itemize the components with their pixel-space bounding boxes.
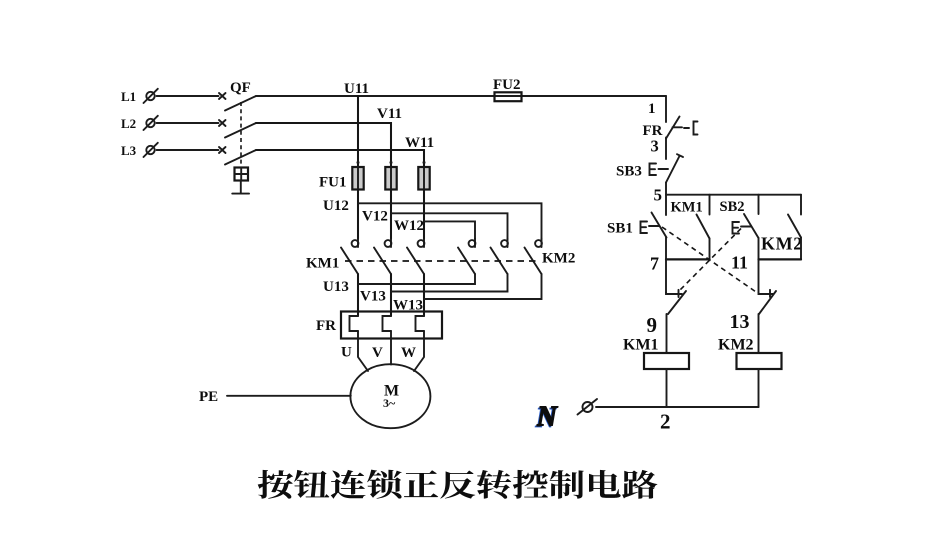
svg-text:1: 1 — [648, 101, 656, 117]
svg-text:KM2: KM2 — [542, 251, 575, 267]
contactor main contact at x=475 — [458, 239, 475, 274]
breaker QF pole 3 — [219, 147, 256, 165]
wire SB1 to node7 — [665, 238, 667, 260]
svg-text:KM2: KM2 — [761, 234, 803, 254]
fuse FU1 element at x=391 — [385, 161, 396, 190]
wire L1 to QF — [157, 95, 219, 97]
fuse FU2 — [495, 92, 522, 101]
node L1 terminal — [144, 89, 158, 103]
linkage dashed SB2 NO to SB2 NC — [679, 229, 741, 292]
thermal relay FR heater element at x=391 — [383, 316, 392, 331]
wire KM2 pole3 to W13 crossover — [424, 274, 542, 299]
svg-text:FU2: FU2 — [493, 77, 521, 93]
coil KM1 — [644, 353, 689, 369]
svg-text:U: U — [341, 345, 352, 361]
node 2 wire N bus — [596, 406, 759, 408]
svg-text:U12: U12 — [323, 198, 349, 214]
pushbutton SB1 NO forward button — [641, 213, 667, 238]
wire SB2 to node11 — [758, 238, 760, 259]
thermal relay FR NC contact — [666, 117, 682, 139]
wire W12 branch to KM2 — [424, 221, 475, 238]
node 7 wire — [666, 258, 710, 260]
fuse FU1 element at x=358 — [352, 161, 363, 190]
svg-text:QF: QF — [230, 80, 251, 96]
wire L3 to QF — [157, 149, 219, 151]
wire U12 drop — [357, 190, 359, 239]
wire U13 drop — [357, 274, 359, 316]
svg-text:9: 9 — [647, 313, 658, 337]
wire node7 drop — [665, 259, 667, 292]
pushbutton SB2 NC interlock contact — [666, 290, 686, 314]
wire L3 bus to W11 — [256, 150, 424, 167]
svg-text:PE: PE — [199, 389, 218, 405]
wire L2 to QF — [157, 122, 219, 124]
svg-text:U13: U13 — [323, 279, 349, 295]
svg-text:V11: V11 — [377, 106, 402, 122]
wire L1 bus U11 to node 1 — [256, 95, 666, 97]
svg-text:KM1: KM1 — [623, 337, 659, 354]
thermal relay FR heater element at x=358 — [350, 316, 359, 331]
thermal relay FR trip symbol — [684, 122, 698, 135]
wire PE to motor — [227, 395, 351, 397]
thermal relay FR box — [341, 312, 442, 339]
wire KM1 coil to node2 — [666, 369, 668, 407]
svg-text:7: 7 — [650, 254, 659, 274]
wire node9 segment — [666, 314, 668, 353]
svg-text:5: 5 — [654, 186, 663, 205]
wire U12 branch to KM2 — [358, 203, 542, 239]
fuse FU1 element at x=424 — [418, 161, 429, 190]
contactor linkage dashed KM1-KM2 — [345, 260, 540, 262]
svg-text:FR: FR — [316, 318, 336, 334]
node 11 wire — [759, 258, 802, 260]
contact KM1 auxiliary NO self-latch — [697, 215, 710, 239]
contactor main contact at x=424 — [407, 239, 424, 274]
wire motor V lead — [390, 331, 392, 365]
breaker QF pole 2 — [219, 120, 256, 138]
wire node5 segment — [665, 183, 667, 216]
pushbutton SB3 NC stop button — [650, 154, 684, 182]
motor M 3-phase — [350, 364, 430, 428]
wire KM2 aux to node11 — [800, 238, 802, 260]
wire KM2 pole2 to V13 crossover — [391, 274, 508, 292]
contact KM2 auxiliary NO self-latch — [788, 215, 801, 238]
svg-text:SB2: SB2 — [720, 199, 745, 215]
wire node5 rail — [666, 194, 801, 196]
svg-text:V: V — [372, 345, 383, 361]
breaker QF pole 1 — [219, 93, 256, 111]
breaker QF mechanism stem and bar — [232, 181, 249, 194]
thermal relay FR heater element at x=424 — [416, 316, 425, 331]
svg-text:L2: L2 — [121, 116, 136, 131]
wire W12 drop — [423, 190, 425, 239]
svg-text:KM2: KM2 — [718, 337, 754, 354]
wire KM1 aux to node7 — [709, 239, 711, 260]
svg-text:SB3: SB3 — [616, 164, 642, 180]
svg-text:N: N — [536, 402, 559, 433]
wire node3 segment — [665, 138, 667, 160]
wire W13 drop — [423, 274, 425, 316]
contactor main contact at x=541.5 — [525, 239, 542, 274]
svg-text:V12: V12 — [362, 209, 388, 225]
svg-text:2: 2 — [660, 410, 671, 434]
wire node11 drop — [758, 259, 760, 292]
pushbutton SB1 NC interlock contact — [759, 290, 777, 314]
coil KM2 — [737, 353, 782, 369]
svg-text:V13: V13 — [360, 289, 386, 305]
svg-text:L1: L1 — [121, 89, 136, 104]
svg-text:3: 3 — [651, 137, 659, 156]
svg-text:13: 13 — [730, 311, 750, 333]
svg-text:KM1: KM1 — [671, 200, 703, 216]
node L2 terminal — [144, 116, 158, 130]
contactor main contact at x=391 — [374, 239, 391, 274]
svg-text:11: 11 — [731, 253, 748, 273]
node N terminal — [578, 399, 598, 415]
wire SB2 branch drop — [758, 195, 760, 214]
svg-text:L3: L3 — [121, 143, 137, 158]
wire motor U lead — [358, 331, 368, 371]
svg-text:3~: 3~ — [383, 396, 396, 410]
breaker QF linkage dashed — [240, 102, 242, 167]
wire U11 drop — [357, 96, 359, 167]
node L3 terminal — [144, 143, 158, 157]
pushbutton SB2 NO reverse button — [733, 214, 759, 238]
wire L2 bus to V11 — [256, 123, 391, 167]
linkage dashed SB1 NO to SB1 NC — [662, 227, 758, 293]
contactor main contact at x=507.5 — [491, 239, 508, 274]
breaker QF operating mechanism box — [235, 168, 249, 181]
svg-text:FU1: FU1 — [319, 175, 347, 191]
wire node1 drop — [665, 96, 667, 122]
wire KM2 pole1 to U13 crossover — [358, 274, 475, 284]
wire KM2 aux branch drop — [800, 195, 802, 215]
svg-text:W12: W12 — [394, 218, 424, 234]
wire V12 drop — [390, 190, 392, 239]
contactor main contact at x=358 — [341, 239, 358, 274]
svg-text:KM1: KM1 — [306, 256, 339, 272]
svg-text:SB1: SB1 — [607, 221, 633, 237]
svg-text:W11: W11 — [405, 135, 434, 151]
title text 按钮连锁正反转控制电路 — [258, 470, 658, 499]
node N label — [534, 402, 559, 435]
wire node13 segment — [758, 314, 760, 353]
wire motor W lead — [414, 331, 424, 371]
wire V12 branch to KM2 — [391, 213, 508, 239]
svg-text:U11: U11 — [344, 81, 369, 97]
svg-text:W: W — [401, 345, 416, 361]
wire KM2 coil to node2 — [758, 369, 760, 407]
wire V13 drop — [390, 274, 392, 316]
wire KM1 aux branch drop — [709, 195, 711, 215]
